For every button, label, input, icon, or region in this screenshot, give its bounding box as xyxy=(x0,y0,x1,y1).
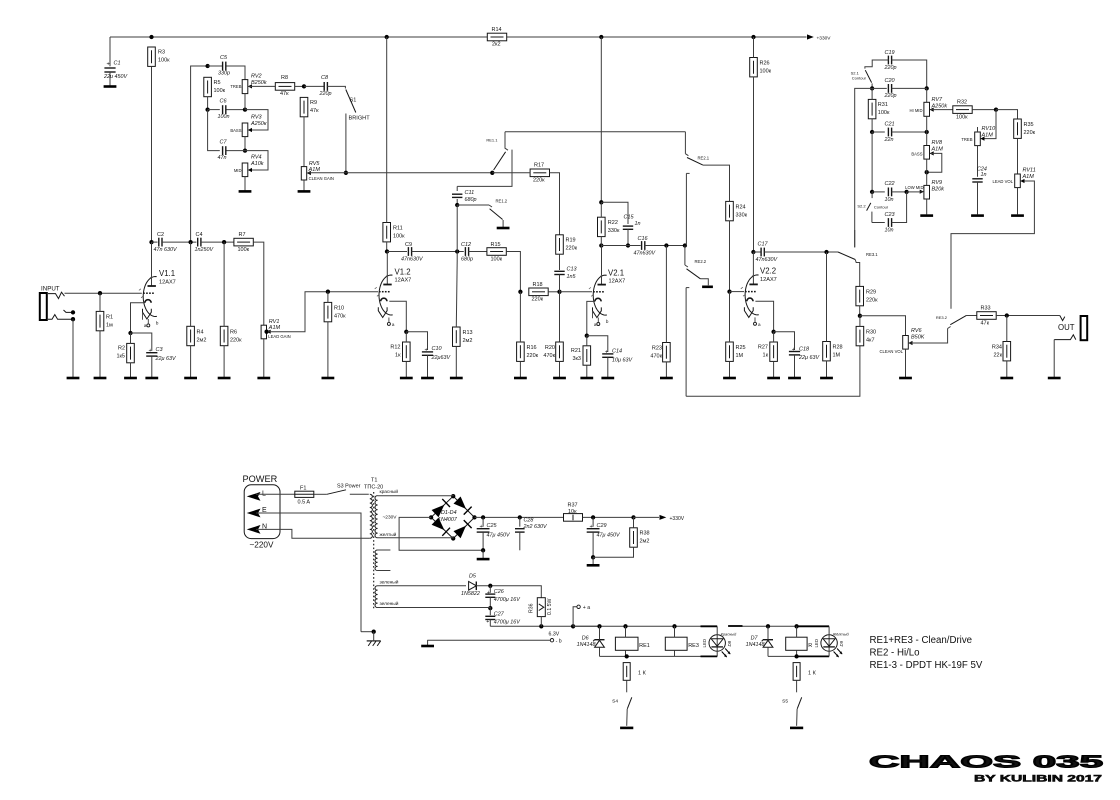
junction R31 / C21 xyxy=(870,130,874,134)
svg-text:A250к: A250к xyxy=(250,121,267,127)
svg-text:R2: R2 xyxy=(118,346,125,352)
svg-text:220к: 220к xyxy=(527,353,539,359)
wire RE1 row bottom xyxy=(600,655,701,657)
svg-text:A1M: A1M xyxy=(981,133,994,139)
svg-text:R20: R20 xyxy=(545,345,555,351)
wire R27 bottom lead xyxy=(773,361,775,377)
wire C4 to R7 xyxy=(201,241,235,243)
capacitor C27 xyxy=(485,612,521,626)
note RE functions xyxy=(870,635,983,671)
junction input sleeve xyxy=(71,317,75,321)
wire C25 gnd stub xyxy=(482,550,484,558)
wire R12 bottom lead xyxy=(405,361,407,377)
ground C10 xyxy=(421,377,434,380)
svg-text:R9: R9 xyxy=(310,100,317,106)
svg-text:R30: R30 xyxy=(866,330,876,336)
svg-text:RV1: RV1 xyxy=(269,319,280,325)
ground S5 xyxy=(790,727,803,730)
junction C25 top xyxy=(481,515,485,519)
svg-text:1n5: 1n5 xyxy=(567,274,577,280)
wire C5 left lead xyxy=(208,65,222,67)
junction R18 / C13 column / V2.1 grid xyxy=(557,290,561,294)
wire R6 bottom lead xyxy=(223,346,225,377)
wire R5 bottom to C6 node xyxy=(207,97,209,110)
junction rail / R22 feed xyxy=(599,35,603,39)
ground R28 xyxy=(820,377,833,380)
capacitor C28 xyxy=(515,518,548,533)
wire to C2 xyxy=(152,241,158,243)
wire feed to RE2.1 xyxy=(684,132,686,154)
svg-text:C23: C23 xyxy=(885,212,896,218)
resistor R1 xyxy=(96,311,113,330)
wire C25 bottom lead xyxy=(482,532,484,550)
ground RV1 xyxy=(257,377,270,380)
wire RE2 column to RE2.2 xyxy=(684,246,686,266)
junction R33 / R34 xyxy=(1005,313,1009,317)
svg-text:Contour: Contour xyxy=(852,76,867,81)
wire RV11 wiper to RE3.2 feed xyxy=(951,181,1034,234)
svg-text:47n630V: 47n630V xyxy=(634,251,657,257)
svg-text:R19: R19 xyxy=(566,238,576,244)
svg-text:RV6: RV6 xyxy=(911,328,923,334)
svg-text:R23: R23 xyxy=(652,346,662,352)
svg-text:RE2 - Hi/Lo: RE2 - Hi/Lo xyxy=(870,647,920,658)
wire S3 to primary xyxy=(350,493,369,495)
wire S4 to ground xyxy=(626,709,629,726)
svg-text:220p: 220p xyxy=(884,65,897,71)
wire V1.2 cathode to R12 node xyxy=(389,301,406,332)
junction V1.2 cathode / R12 / C10 xyxy=(404,330,408,334)
wire tone stack feed xyxy=(191,66,208,242)
junction D6 top xyxy=(597,624,601,628)
resistor R33 xyxy=(977,306,996,327)
junction R32 / R35 / RV10 xyxy=(994,107,998,111)
ground R2 xyxy=(124,377,137,380)
svg-text:22μ 450V: 22μ 450V xyxy=(103,74,128,80)
svg-text:RV4: RV4 xyxy=(251,155,262,161)
ground RV6 xyxy=(899,377,912,380)
triode V1.2 xyxy=(375,268,412,328)
svg-text:RV10: RV10 xyxy=(982,126,997,132)
potentiometer RV3 BASS xyxy=(230,115,267,137)
transformer T1 heater winding xyxy=(375,578,399,607)
svg-text:R: R xyxy=(808,643,812,649)
wire contour bus xyxy=(855,88,872,247)
connector POWER xyxy=(243,474,281,550)
junction R38 / +330V xyxy=(631,515,635,519)
wire RE1.2 to ground xyxy=(502,220,504,227)
svg-text:680p: 680p xyxy=(461,257,473,263)
wire HI MID column top xyxy=(926,88,928,102)
svg-text:RV5: RV5 xyxy=(309,161,321,167)
svg-text:4к7: 4к7 xyxy=(866,338,875,344)
ground R1 xyxy=(94,377,107,380)
wire -b ground stub xyxy=(427,640,429,645)
svg-text:330к: 330к xyxy=(608,228,620,234)
junction D5 / C26 xyxy=(488,584,492,588)
svg-text:A1M: A1M xyxy=(931,147,944,153)
resistor R18 xyxy=(529,282,548,303)
svg-text:100n: 100n xyxy=(218,114,230,120)
junction RV3 / C7 / RV4 xyxy=(243,148,247,152)
wire R8 to node xyxy=(295,85,304,87)
svg-text:C27: C27 xyxy=(494,612,505,618)
wire RV11 bottom lead xyxy=(1017,188,1019,215)
resistor R30 xyxy=(856,326,876,345)
svg-text:+: + xyxy=(605,349,608,355)
switch S3 Power xyxy=(327,483,361,494)
svg-text:1 К: 1 К xyxy=(808,671,817,677)
svg-text:1м: 1м xyxy=(106,323,113,329)
capacitor C22 xyxy=(885,181,895,203)
capacitor C3 xyxy=(146,347,177,362)
capacitor C4 xyxy=(195,232,215,253)
svg-text:10n: 10n xyxy=(885,228,894,234)
svg-text:LEAD GAIN: LEAD GAIN xyxy=(268,334,290,339)
wire R29 to R30 node xyxy=(859,306,861,316)
wire V1.2 anode up xyxy=(386,252,388,276)
wire C26 top lead xyxy=(489,586,491,593)
svg-text:+: + xyxy=(486,619,489,625)
svg-text:1n250V: 1n250V xyxy=(195,247,215,253)
relay contact RE1.1 xyxy=(486,132,508,170)
wire to V2.2 grid xyxy=(730,291,745,293)
svg-text:POWER: POWER xyxy=(243,474,278,484)
svg-text:330p: 330p xyxy=(218,71,230,77)
junction +a branch xyxy=(571,624,575,628)
junction R22 top / C15 branch xyxy=(599,200,603,204)
wire R11 top lead xyxy=(386,37,388,223)
capacitor C15 xyxy=(623,215,641,230)
svg-text:C3: C3 xyxy=(156,347,164,353)
ground R6 xyxy=(218,377,231,380)
wire 1K2 to S5 xyxy=(796,680,798,692)
svg-text:1M: 1M xyxy=(736,353,744,359)
ground R27 xyxy=(767,377,780,380)
svg-text:C25: C25 xyxy=(487,523,498,529)
svg-text:220к: 220к xyxy=(532,297,544,303)
ground RV4 xyxy=(239,190,252,193)
wire C8 to S1 xyxy=(327,86,345,88)
wire thick top segment D8 xyxy=(701,625,718,627)
resistor 1K (S4) xyxy=(623,663,646,681)
svg-text:RE3.2: RE3.2 xyxy=(936,315,948,320)
junction rail / R11 feed xyxy=(385,35,389,39)
resistor R23 xyxy=(650,343,670,362)
svg-text:RE2.2: RE2.2 xyxy=(695,259,707,264)
junction R5 top / C5 xyxy=(205,64,209,68)
svg-text:C21: C21 xyxy=(885,122,895,128)
svg-text:Contour: Contour xyxy=(874,205,889,210)
svg-text:R35: R35 xyxy=(1024,122,1034,128)
diode D5 xyxy=(461,574,480,597)
wire C28 bottom lead xyxy=(519,532,521,550)
capacitor C23 xyxy=(885,212,896,234)
svg-text:D6: D6 xyxy=(582,635,589,641)
junction C15 / C16 wire xyxy=(626,243,630,247)
wire R1 bottom lead xyxy=(99,331,101,377)
wire R25 top lead xyxy=(729,292,731,342)
svg-text:C7: C7 xyxy=(220,140,228,146)
svg-text:22к: 22к xyxy=(993,353,1002,359)
resistor R36 xyxy=(529,598,553,617)
svg-text:C4: C4 xyxy=(196,232,203,238)
wire R37 to C29 node xyxy=(583,516,634,518)
wire R1 top lead xyxy=(99,293,101,311)
svg-text:12AX7: 12AX7 xyxy=(760,277,777,283)
resistor R6 xyxy=(220,326,242,345)
resistor R16 xyxy=(517,342,539,361)
wire R11 bottom to anode node xyxy=(386,242,388,252)
wire to C17 xyxy=(753,251,760,253)
svg-text:22n: 22n xyxy=(884,137,894,143)
wire thick top segment D9 xyxy=(795,625,829,627)
svg-text:C12: C12 xyxy=(461,242,471,248)
wire to V2.1 grid xyxy=(560,291,593,293)
junction bridge bottom xyxy=(451,536,455,540)
svg-text:HI MID: HI MID xyxy=(909,108,922,113)
svg-text:+: + xyxy=(792,347,795,353)
wire RE2.1 arm to R24 xyxy=(703,165,730,201)
resistor R5 xyxy=(204,77,226,96)
svg-text:C29: C29 xyxy=(597,523,607,529)
capacitor C25 xyxy=(477,523,511,538)
LED D9 xyxy=(814,626,850,657)
wire F1 to S3 xyxy=(314,493,327,495)
wire R13 top lead2 xyxy=(455,260,458,327)
wire C29 bottom lead xyxy=(592,532,594,557)
wire relay bus 2 xyxy=(743,625,796,627)
junction R10 / grid wire xyxy=(326,290,330,294)
svg-text:C10: C10 xyxy=(432,346,443,352)
wire C9 to C12 xyxy=(412,251,464,253)
svg-text:MID: MID xyxy=(234,168,242,173)
ground R13 xyxy=(450,377,463,380)
wire R26 down to C17 node xyxy=(753,77,755,252)
svg-text:R11: R11 xyxy=(393,226,403,232)
triode V2.1 xyxy=(589,269,625,327)
wire C6 left lead xyxy=(208,109,220,111)
svg-text:BASS: BASS xyxy=(230,128,241,133)
relay contact RE3.2 fixed stub xyxy=(950,234,952,309)
wire R25 bottom lead xyxy=(729,361,731,377)
wire C7 right lead xyxy=(226,150,245,152)
svg-text:S3 Power: S3 Power xyxy=(337,483,361,489)
svg-text:C28: C28 xyxy=(524,518,534,524)
svg-text:b: b xyxy=(606,319,609,324)
wire C19 left to S2.1 xyxy=(865,60,889,69)
wire V1.1 cathode to R2 node xyxy=(131,303,146,333)
resistor R32 xyxy=(953,100,972,121)
potentiometer RV1 LEAD GAIN xyxy=(261,319,291,339)
svg-text:100к: 100к xyxy=(956,114,968,120)
resistor R25 xyxy=(726,342,746,361)
resistor R7 xyxy=(234,232,253,253)
svg-text:S4: S4 xyxy=(612,699,618,705)
wire input sleeve to ground xyxy=(72,319,74,377)
resistor R17 xyxy=(530,163,549,184)
wire RV1 wiper to V1.2 grid xyxy=(268,292,378,332)
wire C15 bottom lead xyxy=(627,229,629,245)
wire C3 bottom lead xyxy=(151,356,153,377)
svg-text:LEAD VOL: LEAD VOL xyxy=(993,179,1014,184)
power arrow +330V (top) xyxy=(807,34,831,41)
ground R16 xyxy=(514,377,527,380)
wire R13 bottom lead xyxy=(455,346,457,377)
capacitor C14 xyxy=(602,349,633,364)
capacitor C11 xyxy=(452,190,477,203)
junction D7 top xyxy=(766,624,770,628)
wire C14 top lead xyxy=(587,336,608,352)
wire input tip to grid xyxy=(65,292,142,294)
wire RE3.1 to R29 xyxy=(859,266,861,287)
svg-text:RE1.1: RE1.1 xyxy=(486,138,498,143)
wire RV8 bottom lead xyxy=(926,159,928,185)
junction RE2 top xyxy=(794,624,798,628)
switch S2.2 Contour xyxy=(857,192,888,223)
wire to +330V arrow xyxy=(634,516,660,518)
svg-text:LOW MID: LOW MID xyxy=(905,185,923,190)
relay contact RE2.2 fixed stub xyxy=(686,288,689,397)
svg-text:100к: 100к xyxy=(878,110,890,116)
junction RE3 top xyxy=(672,624,676,628)
wire R31 node to C21 xyxy=(872,131,885,133)
svg-text:BASS: BASS xyxy=(911,152,922,157)
svg-text:R29: R29 xyxy=(866,290,876,296)
capacitor C20 xyxy=(884,78,897,99)
svg-text:a: a xyxy=(758,322,761,327)
resistor R11 xyxy=(383,223,405,242)
capacitor C10 xyxy=(422,346,452,361)
wire down to RV8 xyxy=(926,132,928,146)
svg-text:+330V: +330V xyxy=(817,35,832,41)
junction C19/C20 right xyxy=(925,86,929,90)
relay contact RE3.2 xyxy=(936,315,967,329)
svg-text:S5: S5 xyxy=(782,699,788,705)
svg-text:47n630V: 47n630V xyxy=(401,257,424,263)
wire to C16 xyxy=(601,245,640,247)
wire C20 left lead xyxy=(872,87,887,89)
wire V2.1 anode up xyxy=(601,246,603,276)
svg-text:RV3: RV3 xyxy=(251,115,263,121)
svg-text:C11: C11 xyxy=(465,190,475,196)
svg-text:1n: 1n xyxy=(981,172,987,178)
svg-text:V2.2: V2.2 xyxy=(760,267,776,276)
resistor R26 xyxy=(750,58,772,77)
svg-text:RV11: RV11 xyxy=(1023,168,1036,174)
wire RE1 bottom lead xyxy=(625,650,627,656)
svg-text:C5: C5 xyxy=(220,55,228,61)
svg-text:100к: 100к xyxy=(760,69,772,75)
wire C1 bottom lead xyxy=(109,72,111,86)
wire RV3 bypass loop xyxy=(245,110,268,130)
svg-text:A250k: A250k xyxy=(931,104,948,110)
svg-text:10n: 10n xyxy=(885,197,894,203)
svg-text:47к: 47к xyxy=(981,320,990,326)
junction S2.1 / C20 / R31 / bus xyxy=(870,86,874,90)
resistor R37 xyxy=(564,503,583,522)
wire green bottom to mid node xyxy=(378,607,491,610)
wire R10 top lead xyxy=(327,292,329,303)
svg-text:CLEAN VOL: CLEAN VOL xyxy=(879,349,903,354)
wire R18 right to column xyxy=(548,291,559,293)
ground C25 xyxy=(477,558,490,561)
junction C29 / R38 return xyxy=(591,555,595,559)
junction V2.1 cathode / R21 / C14 xyxy=(585,334,589,338)
relay coil RE3 xyxy=(665,637,699,650)
relay coil RE1 xyxy=(615,637,649,650)
svg-text:12AX7: 12AX7 xyxy=(159,280,176,286)
svg-text:100к: 100к xyxy=(158,58,170,64)
svg-text:0.1 5W: 0.1 5W xyxy=(547,598,553,615)
switch S2.1 Contour xyxy=(851,70,873,88)
svg-text:47к: 47к xyxy=(280,91,289,97)
switch S5 xyxy=(782,697,802,709)
wire R34 top lead xyxy=(1006,316,1008,342)
wire R6 top lead xyxy=(223,242,225,326)
svg-text:RE1-3 - DPDT HK-19F 5V: RE1-3 - DPDT HK-19F 5V xyxy=(870,660,983,671)
resistor R24 xyxy=(726,201,748,220)
svg-text:RV9: RV9 xyxy=(932,180,943,186)
svg-text:RE1: RE1 xyxy=(639,643,650,649)
svg-text:470к: 470к xyxy=(543,353,555,359)
svg-text:220p: 220p xyxy=(319,91,332,97)
wire R21 bottom lead xyxy=(586,365,588,377)
svg-text:680p: 680p xyxy=(465,197,477,203)
svg-text:1N5822: 1N5822 xyxy=(461,591,480,597)
bridge rectifier D1-D4 xyxy=(431,496,474,538)
resistor R28 xyxy=(823,342,843,361)
svg-text:Жёлтый: Жёлтый xyxy=(832,632,850,637)
potentiometer RV4 MID xyxy=(234,155,264,177)
svg-text:1n: 1n xyxy=(635,221,641,227)
capacitor C1 xyxy=(103,61,128,80)
wire V2.1 cathode to R21 node xyxy=(587,301,595,335)
svg-text:220p: 220p xyxy=(884,93,897,99)
wire C14 bottom lead xyxy=(607,357,609,377)
svg-text:4700μ 16V: 4700μ 16V xyxy=(494,597,521,603)
resistor R10 xyxy=(324,302,346,321)
svg-text:LED: LED xyxy=(702,639,707,648)
ground input jack xyxy=(67,377,80,380)
junction input / R1 xyxy=(98,291,102,295)
wire R23 top lead xyxy=(665,246,667,343)
junction R37 / C29 xyxy=(591,515,595,519)
svg-text:C22: C22 xyxy=(885,181,895,187)
svg-text:R27: R27 xyxy=(758,345,768,351)
label 6.3V xyxy=(549,631,560,637)
potentiometer RV2 TREB xyxy=(230,74,267,94)
resistor R13 xyxy=(453,327,473,346)
wire D7 bottom lead xyxy=(767,647,769,656)
resistor R2 xyxy=(116,343,134,362)
wire C13 to grid node xyxy=(559,275,561,292)
svg-text:V2.1: V2.1 xyxy=(608,269,624,278)
svg-text:2n2 630V: 2n2 630V xyxy=(523,524,548,530)
svg-text:10к: 10к xyxy=(568,509,577,515)
junction C25 / minus bus xyxy=(481,548,485,552)
svg-text:0.5 A: 0.5 A xyxy=(298,500,311,506)
svg-text:100к: 100к xyxy=(214,88,226,94)
wire R3 to V1.1 anode node xyxy=(151,66,153,242)
svg-text:C26: C26 xyxy=(494,589,504,595)
wire node to C8 xyxy=(304,85,324,87)
junction R18 left / R16 xyxy=(518,290,522,294)
capacitor C12 xyxy=(461,242,473,263)
wire R34 bottom lead xyxy=(1006,361,1008,377)
svg-text:S1: S1 xyxy=(350,98,357,104)
potentiometer RV7 HI MID xyxy=(909,97,947,116)
